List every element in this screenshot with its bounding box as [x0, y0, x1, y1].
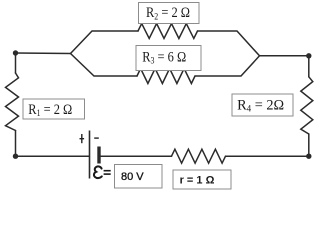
node top-left — [13, 50, 18, 55]
resistor r — [172, 149, 226, 163]
battery minus sign — [94, 137, 99, 139]
resistor R3 — [137, 69, 195, 84]
label box r — [173, 170, 231, 189]
wire right side upper — [308, 56, 310, 77]
wire bottom right segment — [226, 155, 309, 157]
wire right vertex to top-right node — [260, 55, 309, 57]
wire battery to resistor r — [99, 155, 171, 157]
wire right side lower — [308, 134, 310, 156]
wire upper branch left diagonal — [71, 31, 139, 54]
wire lower branch right diagonal — [195, 56, 260, 76]
svg-text:R1 = 2 Ω: R1 = 2 Ω — [28, 102, 72, 119]
svg-text:R2 = 2 Ω: R2 = 2 Ω — [146, 5, 190, 22]
resistor R2 — [138, 24, 198, 39]
svg-text:80 V: 80 V — [121, 171, 144, 183]
label box R4 — [232, 94, 293, 116]
wire bottom left segment — [16, 155, 90, 157]
label box R1 — [23, 99, 85, 119]
node bottom-left — [13, 154, 18, 159]
node top-right — [306, 53, 311, 58]
wire top-left node to split vertex — [16, 52, 71, 55]
battery cell long plate — [89, 131, 91, 179]
wire lower branch left diagonal — [71, 54, 138, 77]
battery cell short thick plate — [97, 147, 100, 164]
svg-text:R4 = 2Ω: R4 = 2Ω — [237, 98, 284, 115]
svg-text:r = 1 Ω: r = 1 Ω — [180, 174, 215, 186]
resistor R1 — [6, 73, 19, 131]
label box R2 — [139, 3, 200, 24]
node bottom-right — [306, 154, 311, 159]
label box R3 — [136, 46, 201, 71]
label box 80 V — [115, 165, 163, 189]
battery plus sign — [80, 134, 85, 143]
resistor R4 — [301, 77, 313, 134]
svg-text:R3 = 6 Ω: R3 = 6 Ω — [142, 49, 186, 66]
wire left side upper — [15, 53, 17, 73]
emf symbol epsilon — [94, 166, 102, 178]
wire left side lower — [15, 131, 17, 157]
emf equals sign — [104, 171, 111, 174]
wire upper branch right diagonal — [198, 31, 260, 56]
